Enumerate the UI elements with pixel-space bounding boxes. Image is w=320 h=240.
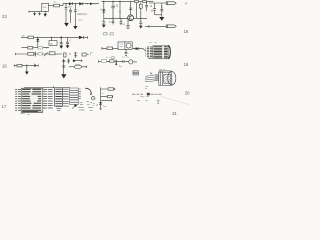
diode D7 xyxy=(132,48,136,50)
resistor R8 xyxy=(28,52,34,55)
resistor R4 xyxy=(140,3,142,19)
node m xyxy=(60,37,62,39)
label dashes4 xyxy=(79,101,92,104)
IC U3 body xyxy=(153,45,168,58)
capacitor C17 xyxy=(125,49,128,55)
capacitor C9b xyxy=(112,18,115,24)
svg-text:C2(mm)=: C2(mm)= xyxy=(77,13,88,16)
wire slash xyxy=(44,52,48,56)
ground xyxy=(102,25,106,28)
ground xyxy=(139,26,143,29)
label a xyxy=(100,9,102,11)
node h xyxy=(119,18,120,19)
wire U1 ground lead xyxy=(44,11,46,14)
node f2 xyxy=(119,11,120,12)
capacitor C19 xyxy=(62,59,65,75)
capacitor C11 xyxy=(126,18,129,28)
wire diagonal xyxy=(96,104,98,106)
resistor R6 xyxy=(28,46,33,49)
wire branch2 xyxy=(101,96,113,98)
svg-text:22: 22 xyxy=(2,14,7,19)
wire +5V rail xyxy=(60,4,100,6)
resistor R12 xyxy=(82,53,86,56)
connector CN2 xyxy=(166,25,176,28)
IC U4 rows xyxy=(22,89,41,111)
zener D4 xyxy=(103,1,105,18)
IC U5 bus xyxy=(62,88,64,107)
ground xyxy=(64,23,69,27)
node o xyxy=(26,64,28,66)
connector CN1 xyxy=(166,2,176,5)
wire vertical xyxy=(119,1,121,18)
wire input line circuit1 xyxy=(29,11,42,13)
capacitor C18 xyxy=(34,64,35,67)
node f xyxy=(119,1,120,2)
resistor R11 xyxy=(64,53,66,57)
ground xyxy=(43,14,47,17)
connector J3 xyxy=(133,71,138,75)
transistor Q1 xyxy=(128,15,134,21)
IC U4 body xyxy=(21,88,43,112)
label dash xyxy=(56,53,58,55)
capacitor C16 xyxy=(74,52,77,58)
diode D5 xyxy=(37,37,39,47)
wire top bus xyxy=(24,86,70,88)
cable W1 xyxy=(145,74,159,81)
fuse F1 xyxy=(69,66,74,68)
capacitor C8 xyxy=(145,1,148,11)
diode D1 xyxy=(69,2,72,5)
label a1 xyxy=(149,41,156,43)
wire vertical circuit9 xyxy=(100,87,102,105)
wire to U2 xyxy=(51,37,53,40)
wire scratch line xyxy=(161,97,189,105)
capacitor C10 xyxy=(120,18,123,25)
capacitor C1 xyxy=(34,12,36,13)
wire line circuit8 xyxy=(99,60,123,62)
resistor R17 xyxy=(17,64,22,67)
resistor R19 xyxy=(110,60,114,62)
regulator U1 xyxy=(42,3,49,11)
capacitor C14 xyxy=(60,37,63,45)
resistor R20 xyxy=(108,88,113,90)
resistor R21 xyxy=(107,95,112,97)
capacitor C6 xyxy=(111,1,114,18)
diode D8 xyxy=(73,59,77,62)
wire down xyxy=(26,66,28,72)
wire to Q1 xyxy=(129,1,132,15)
resistor R1 xyxy=(54,4,60,7)
node c xyxy=(87,3,88,4)
resistor R9 xyxy=(38,53,42,55)
capacitor C15 xyxy=(66,37,69,45)
capacitor C12 xyxy=(153,3,156,15)
node q xyxy=(91,96,95,100)
IC U5 left edge xyxy=(54,88,56,107)
resistor R18 xyxy=(101,60,106,63)
wire branch1 xyxy=(101,88,115,90)
IC U4 pins right xyxy=(43,89,53,108)
ground xyxy=(73,26,77,29)
label dashes3 xyxy=(75,63,80,65)
capacitor C13 xyxy=(160,3,163,17)
capacitor C2 xyxy=(39,12,41,14)
wire line2 circuit3 xyxy=(145,25,166,27)
ground xyxy=(59,46,63,49)
capacitor C5 xyxy=(74,4,77,26)
ground xyxy=(33,13,36,16)
wire mid line xyxy=(22,47,50,49)
wire top rail circuit2 xyxy=(102,0,154,2)
label marks3 xyxy=(137,100,159,103)
label dashes2 xyxy=(106,56,128,59)
svg-text:16: 16 xyxy=(2,64,7,69)
lamp L1 xyxy=(123,60,129,63)
resistor R16 xyxy=(112,57,115,59)
ground xyxy=(38,13,41,15)
resistor R13 xyxy=(104,33,107,35)
ground xyxy=(25,72,29,75)
RN1 right leads xyxy=(78,89,81,99)
wire arc xyxy=(85,88,91,94)
resistor R10 xyxy=(49,52,55,55)
IC U3 pins left xyxy=(147,47,153,58)
node n xyxy=(134,48,135,49)
svg-text:Lx: Lx xyxy=(43,5,47,9)
node p xyxy=(74,104,77,107)
diode D3 xyxy=(90,3,93,6)
wire line circuit7 xyxy=(14,64,38,66)
capacitor C9 xyxy=(102,18,105,24)
connector P1 body xyxy=(159,71,172,86)
capacitor C7 xyxy=(139,18,142,25)
node e xyxy=(112,1,113,2)
svg-text:+12: +12 xyxy=(114,5,119,8)
svg-text:18: 18 xyxy=(184,62,189,67)
wire bottom rail xyxy=(104,17,147,19)
wire out lead xyxy=(49,4,54,6)
label text row2 xyxy=(140,96,149,98)
svg-text:17: 17 xyxy=(2,104,7,109)
resistor R5 xyxy=(28,36,34,39)
relay K1 xyxy=(118,42,132,49)
IC U3 right edge xyxy=(168,45,170,58)
capacitor C4 xyxy=(69,8,72,23)
resistor network RN1 xyxy=(70,88,79,90)
label bottom marks xyxy=(145,87,148,89)
wire join xyxy=(155,14,162,16)
wire line circuit3 xyxy=(149,2,166,4)
node i xyxy=(140,18,141,19)
wire branch3 xyxy=(101,99,112,101)
capacitor Cs1 xyxy=(34,52,36,57)
ground xyxy=(66,45,70,48)
node l xyxy=(46,47,47,48)
node d xyxy=(103,1,104,2)
diode D2 xyxy=(79,2,83,5)
svg-text:16: 16 xyxy=(184,29,189,34)
wire stub xyxy=(145,48,147,57)
resistor R2 xyxy=(135,1,139,3)
capacitor C20 xyxy=(67,59,70,64)
label dashes xyxy=(69,53,71,54)
label marks xyxy=(93,103,95,105)
wire bottom strip xyxy=(16,53,63,55)
ground xyxy=(159,17,164,21)
resistor R7 xyxy=(38,47,43,49)
connector P1 insert xyxy=(164,74,171,83)
resistor R3 xyxy=(143,1,147,3)
resistor R14 xyxy=(110,33,113,35)
svg-text:2w: 2w xyxy=(119,66,122,68)
capacitor C3 xyxy=(65,4,68,23)
connector P1 ring xyxy=(168,72,176,85)
label dashes5 xyxy=(78,108,93,111)
node s xyxy=(147,93,150,96)
svg-text:20: 20 xyxy=(185,90,190,95)
capacitor C21 xyxy=(115,60,117,65)
label bracket xyxy=(91,53,93,56)
diode D9 xyxy=(99,102,102,105)
ground xyxy=(100,108,102,109)
opto U2 xyxy=(49,41,57,46)
IC U4 pin labels left xyxy=(15,89,21,110)
node b xyxy=(75,3,76,4)
node g xyxy=(112,18,113,19)
diode D6 xyxy=(79,36,83,39)
resistor R15 xyxy=(107,47,113,50)
wire top rail circuit4 xyxy=(21,36,79,38)
label text row xyxy=(132,93,162,95)
svg-text:2N: 2N xyxy=(22,36,25,38)
ground xyxy=(61,74,66,78)
node j xyxy=(161,6,162,7)
label top marks xyxy=(159,68,165,71)
node a xyxy=(65,3,66,4)
IC U5 rows xyxy=(56,89,62,106)
svg-text:21: 21 xyxy=(172,111,177,116)
node k xyxy=(37,37,38,38)
wire relay line xyxy=(102,47,118,50)
